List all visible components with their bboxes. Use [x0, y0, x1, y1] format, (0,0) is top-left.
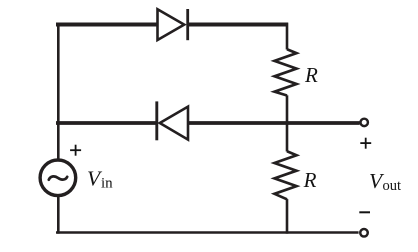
svg-text:R: R: [304, 63, 318, 87]
svg-text:out: out: [383, 178, 402, 194]
svg-text:in: in: [101, 176, 113, 192]
svg-text:R: R: [303, 168, 317, 192]
